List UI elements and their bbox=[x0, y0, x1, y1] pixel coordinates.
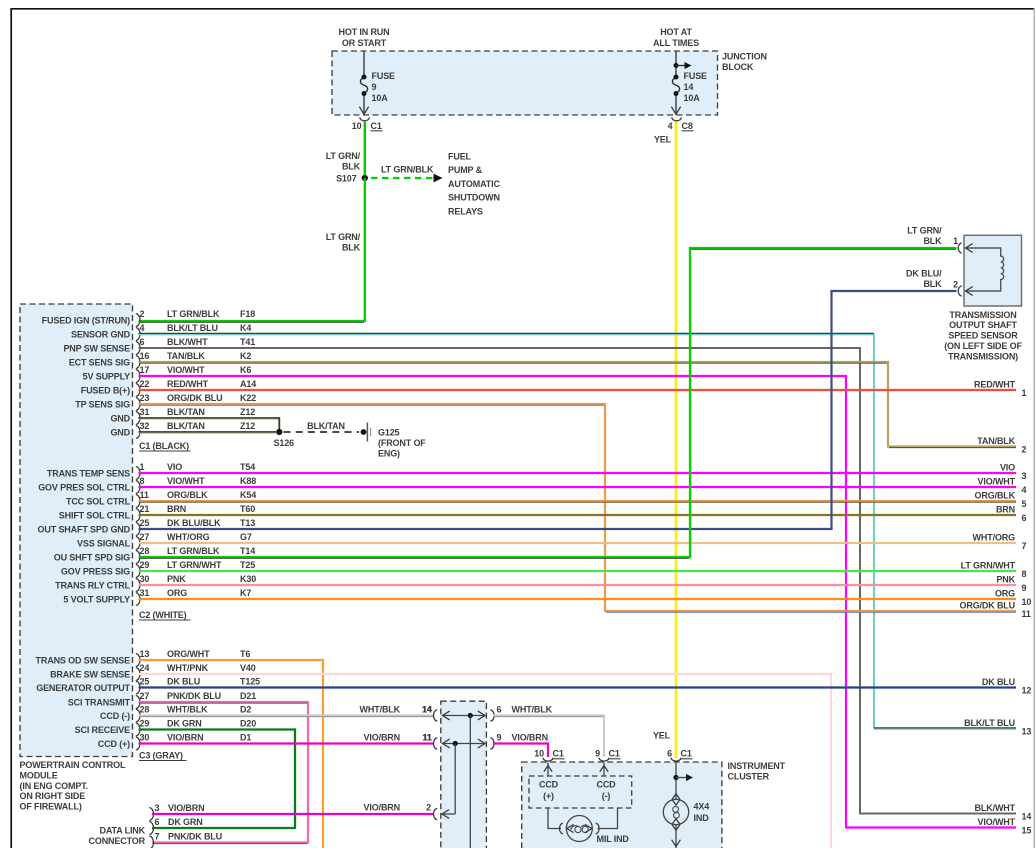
svg-text:C1: C1 bbox=[553, 749, 564, 759]
svg-text:DATA LINK: DATA LINK bbox=[100, 825, 146, 835]
PCM C1 pin 32 GND wire BLK/TAN Z12 to splice S126 bbox=[110, 421, 276, 438]
svg-text:T13: T13 bbox=[240, 518, 255, 528]
svg-text:YEL: YEL bbox=[653, 731, 671, 741]
PCM module label bbox=[20, 760, 126, 812]
PCM C2 pin 1 TRANS TEMP SENS wire VIO T54 to right edge 3 bbox=[47, 462, 1016, 479]
wire CCD (-) lead bbox=[600, 763, 608, 777]
svg-text:SHIFT SOL CTRL: SHIFT SOL CTRL bbox=[59, 511, 131, 521]
label LT GRN/ BLK upper bbox=[326, 151, 361, 172]
svg-text:C1: C1 bbox=[371, 121, 382, 131]
svg-text:23: 23 bbox=[140, 393, 150, 403]
PCM C2 pin 21 SHIFT SOL CTRL wire BRN T60 to right edge 6 bbox=[59, 504, 1016, 521]
svg-text:6: 6 bbox=[140, 337, 145, 347]
PCM C3 pin 30 CCD (+) wire VIO/BRN D1 to in-line connector pin 11 bbox=[98, 733, 434, 750]
svg-text:2: 2 bbox=[1022, 445, 1027, 455]
fuse 14 10A bbox=[671, 51, 707, 114]
PCM C1 pin 16 ECT SENS SIG wire TAN/BLK K2 to right edge 2 bbox=[69, 351, 1016, 448]
svg-text:GOV PRES SOL CTRL: GOV PRES SOL CTRL bbox=[38, 483, 130, 493]
svg-text:RED/WHT: RED/WHT bbox=[167, 379, 209, 389]
splice S126 bbox=[274, 429, 295, 448]
svg-text:12: 12 bbox=[1022, 686, 1032, 696]
svg-text:T14: T14 bbox=[240, 546, 255, 556]
svg-text:T25: T25 bbox=[240, 560, 255, 570]
svg-text:PNK/DK BLU: PNK/DK BLU bbox=[168, 832, 222, 842]
svg-text:CCD (+): CCD (+) bbox=[98, 739, 130, 749]
sensor pin 2 label DK BLU/ BLK bbox=[906, 269, 942, 290]
svg-text:9: 9 bbox=[1022, 583, 1027, 593]
wire VIO/BRN DLC pin 3 to in-line connector pin 2 bbox=[152, 803, 434, 814]
label LT GRN/ BLK lower bbox=[326, 232, 361, 253]
svg-text:4X4: 4X4 bbox=[694, 802, 710, 812]
wire LT GRN/BLK fuse 9 to splice S107 bbox=[364, 122, 366, 179]
svg-text:BLK: BLK bbox=[923, 236, 942, 246]
svg-text:GENERATOR OUTPUT: GENERATOR OUTPUT bbox=[36, 683, 130, 693]
svg-text:K22: K22 bbox=[240, 393, 256, 403]
svg-text:K54: K54 bbox=[240, 490, 256, 500]
svg-text:RELAYS: RELAYS bbox=[448, 206, 483, 216]
MIL IND lamp bbox=[560, 816, 600, 842]
svg-text:C1: C1 bbox=[609, 749, 620, 759]
svg-text:9: 9 bbox=[497, 733, 502, 743]
PCM C1 pin 23 TP SENS SIG wire ORG/DK BLU K22 to right edge 11 bbox=[75, 393, 1016, 612]
svg-text:DK BLU/: DK BLU/ bbox=[906, 269, 942, 279]
svg-text:25: 25 bbox=[140, 518, 150, 528]
svg-text:10: 10 bbox=[534, 749, 544, 759]
svg-text:A14: A14 bbox=[240, 379, 256, 389]
svg-text:SCI RECEIVE: SCI RECEIVE bbox=[75, 725, 131, 735]
svg-text:BLK/TAN: BLK/TAN bbox=[167, 407, 205, 417]
svg-text:G7: G7 bbox=[240, 532, 252, 542]
svg-text:D2: D2 bbox=[240, 705, 251, 715]
svg-text:6: 6 bbox=[497, 705, 502, 715]
PCM C3 pin 25 GENERATOR OUTPUT wire DK BLU T125 to right edge 12 bbox=[36, 677, 1016, 694]
svg-text:INSTRUMENT: INSTRUMENT bbox=[728, 761, 786, 771]
svg-text:8: 8 bbox=[1022, 569, 1027, 579]
svg-text:14: 14 bbox=[422, 705, 432, 715]
label ORG/DK BLU right edge 11 bbox=[960, 601, 1031, 619]
label BLK/WHT right edge 14 bbox=[975, 803, 1032, 821]
instrument cluster box bbox=[522, 762, 722, 848]
in-line connector box bbox=[441, 701, 487, 848]
PCM C1 pin 2 FUSED IGN (ST/RUN) wire LT GRN/BLK F18 bbox=[42, 309, 256, 326]
svg-text:LT GRN/BLK: LT GRN/BLK bbox=[167, 309, 220, 319]
svg-text:DK BLU: DK BLU bbox=[982, 677, 1015, 687]
svg-text:LT GRN/: LT GRN/ bbox=[326, 232, 361, 242]
svg-text:BLK/LT BLU: BLK/LT BLU bbox=[964, 718, 1015, 728]
svg-text:D1: D1 bbox=[240, 733, 251, 743]
svg-text:VIO/BRN: VIO/BRN bbox=[364, 733, 400, 743]
in-line connector pins 14/6 WHT/BLK pass-through bbox=[422, 705, 552, 721]
label HOT IN RUN OR START bbox=[339, 27, 390, 48]
data link connector label bbox=[89, 825, 146, 846]
arrow to fuel pump relays bbox=[434, 174, 443, 183]
PCM C2 pin 30 TRANS RLY CTRL wire PNK K30 to right edge 9 bbox=[55, 574, 1016, 591]
transmission output shaft speed sensor box bbox=[964, 235, 1022, 306]
svg-text:AUTOMATIC: AUTOMATIC bbox=[448, 179, 500, 189]
svg-text:(FRONT OF: (FRONT OF bbox=[378, 438, 426, 448]
svg-text:6: 6 bbox=[1022, 513, 1027, 523]
label VIO/BRN 11 left bbox=[364, 733, 432, 743]
svg-text:FUSE: FUSE bbox=[684, 71, 708, 81]
svg-text:WHT/BLK: WHT/BLK bbox=[512, 705, 553, 715]
label WHT/BLK 14 left bbox=[360, 705, 432, 715]
svg-text:TRANS RLY CTRL: TRANS RLY CTRL bbox=[55, 581, 131, 591]
svg-text:CCD (-): CCD (-) bbox=[100, 711, 130, 721]
connector C8 junction block bbox=[668, 117, 694, 131]
svg-text:OF FIREWALL): OF FIREWALL) bbox=[20, 802, 82, 812]
svg-text:11: 11 bbox=[140, 490, 149, 500]
svg-text:SENSOR GND: SENSOR GND bbox=[71, 330, 131, 340]
PCM C2 pin 29 GOV PRESS SIG wire LT GRN/WHT T25 to right edge 8 bbox=[61, 560, 1016, 577]
wire BLK/TAN S126 to G125 (dashed) bbox=[284, 421, 360, 432]
svg-text:WHT/BLK: WHT/BLK bbox=[360, 705, 401, 715]
svg-text:FUSED IGN (ST/RUN): FUSED IGN (ST/RUN) bbox=[42, 316, 130, 326]
svg-text:TRANSMISSION: TRANSMISSION bbox=[949, 310, 1016, 320]
svg-text:8: 8 bbox=[140, 476, 145, 486]
svg-text:30: 30 bbox=[140, 574, 150, 584]
svg-text:C2 (WHITE): C2 (WHITE) bbox=[139, 610, 187, 620]
svg-text:K7: K7 bbox=[240, 588, 251, 598]
splice S107 bbox=[336, 174, 368, 184]
sensor coil winding bbox=[966, 248, 1004, 291]
PCM C1 pin 6 PNP SW SENSE wire BLK/WHT T41 to right edge 14 bbox=[63, 337, 1016, 813]
svg-text:S107: S107 bbox=[336, 174, 357, 184]
svg-text:TRANS OD SW SENSE: TRANS OD SW SENSE bbox=[36, 656, 131, 666]
label VIO right edge 3 bbox=[1000, 463, 1027, 481]
svg-text:(ON LEFT SIDE OF: (ON LEFT SIDE OF bbox=[944, 341, 1022, 351]
label BRN right edge 6 bbox=[996, 505, 1027, 523]
svg-text:1: 1 bbox=[1022, 388, 1027, 398]
svg-text:CCD: CCD bbox=[596, 780, 616, 790]
svg-text:6: 6 bbox=[155, 817, 160, 827]
svg-text:1: 1 bbox=[140, 462, 145, 472]
svg-text:VIO: VIO bbox=[1000, 463, 1015, 473]
svg-text:ORG/WHT: ORG/WHT bbox=[167, 649, 210, 659]
svg-text:1: 1 bbox=[953, 236, 958, 246]
svg-text:16: 16 bbox=[140, 351, 150, 361]
4X4 IND lamp bbox=[663, 799, 688, 824]
svg-text:K6: K6 bbox=[240, 365, 251, 375]
svg-text:MIL IND: MIL IND bbox=[597, 834, 630, 844]
CCD bus box bbox=[529, 776, 632, 808]
svg-text:ORG/DK BLU: ORG/DK BLU bbox=[167, 393, 223, 403]
svg-text:ORG/BLK: ORG/BLK bbox=[167, 490, 208, 500]
label YEL lower bbox=[653, 731, 671, 741]
svg-text:PNK/DK BLU: PNK/DK BLU bbox=[167, 691, 221, 701]
svg-text:14: 14 bbox=[1022, 812, 1032, 822]
svg-text:15: 15 bbox=[1022, 826, 1032, 836]
svg-text:31: 31 bbox=[140, 588, 150, 598]
wire LT GRN/BLK S107 to PCM pin 2 bbox=[139, 178, 365, 322]
svg-text:C1: C1 bbox=[681, 749, 692, 759]
label BLK/LT BLU right edge 13 bbox=[964, 718, 1031, 736]
svg-text:25: 25 bbox=[140, 677, 150, 687]
svg-text:TRANS TEMP SENS: TRANS TEMP SENS bbox=[47, 469, 130, 479]
svg-text:LT GRN/BLK: LT GRN/BLK bbox=[167, 546, 220, 556]
PCM C2 pin 28 OU SHFT SPD SIG wire LT GRN/BLK T14 to speed sensor pin 1 bbox=[54, 248, 957, 563]
PCM C3 pin 28 CCD (-) wire WHT/BLK D2 to in-line connector pin 14 bbox=[100, 705, 433, 722]
svg-text:BLK: BLK bbox=[923, 279, 942, 289]
svg-text:7: 7 bbox=[155, 832, 160, 842]
svg-text:GND: GND bbox=[110, 428, 130, 438]
svg-text:K88: K88 bbox=[240, 476, 256, 486]
DLC pin 6 connector bbox=[149, 817, 202, 834]
svg-text:5V SUPPLY: 5V SUPPLY bbox=[83, 372, 130, 382]
svg-text:RED/WHT: RED/WHT bbox=[974, 380, 1016, 390]
DLC pin 7 connector bbox=[149, 832, 222, 848]
svg-text:C8: C8 bbox=[682, 121, 693, 131]
svg-text:BLK: BLK bbox=[342, 243, 361, 253]
fuse 9 10A bbox=[359, 51, 395, 114]
wire 4X4 IND circuit bbox=[672, 763, 693, 848]
PCM C2 pin 27 VSS SIGNAL wire WHT/ORG G7 to right edge 7 bbox=[77, 532, 1016, 549]
PCM C2 pin 31 5 VOLT SUPPLY wire ORG K7 to right edge 10 bbox=[63, 588, 1016, 605]
label LT GRN/WHT right edge 8 bbox=[961, 561, 1027, 579]
svg-text:WHT/PNK: WHT/PNK bbox=[167, 663, 209, 673]
svg-text:VIO/BRN: VIO/BRN bbox=[168, 803, 204, 813]
wire LT GRN/BLK S107 branch to relays (dashed) bbox=[371, 177, 433, 179]
svg-text:32: 32 bbox=[140, 421, 150, 431]
PCM C2 pin 8 GOV PRES SOL CTRL wire VIO/WHT K88 to right edge 4 bbox=[38, 476, 1016, 493]
junction block label bbox=[722, 52, 767, 73]
label ORG right edge 10 bbox=[995, 589, 1031, 607]
svg-text:21: 21 bbox=[140, 504, 150, 514]
svg-text:3: 3 bbox=[155, 803, 160, 813]
svg-text:28: 28 bbox=[140, 705, 150, 715]
svg-text:9: 9 bbox=[595, 749, 600, 759]
svg-text:13: 13 bbox=[140, 649, 150, 659]
PCM powertrain control module box bbox=[20, 304, 133, 757]
cluster connector 9 C1 bbox=[595, 749, 620, 762]
svg-text:ENG): ENG) bbox=[378, 448, 400, 458]
svg-text:4: 4 bbox=[668, 121, 673, 131]
svg-text:OU SHFT SPD SIG: OU SHFT SPD SIG bbox=[54, 553, 130, 563]
svg-text:LT GRN/: LT GRN/ bbox=[326, 151, 361, 161]
svg-text:4: 4 bbox=[140, 323, 145, 333]
cluster connector 6 C1 bbox=[667, 749, 692, 762]
junction block bbox=[332, 51, 718, 115]
cluster connector 10 C1 bbox=[534, 749, 564, 762]
PCM C2 pin 11 TCC SOL CTRL wire ORG/BLK K54 to right edge 5 bbox=[66, 490, 1016, 507]
svg-text:V40: V40 bbox=[240, 663, 256, 673]
svg-text:VIO/WHT: VIO/WHT bbox=[167, 476, 205, 486]
label DK BLU right edge 12 bbox=[982, 677, 1031, 695]
svg-text:DK GRN: DK GRN bbox=[167, 719, 202, 729]
sensor label bbox=[944, 310, 1022, 362]
svg-text:POWERTRAIN CONTROL: POWERTRAIN CONTROL bbox=[20, 760, 126, 770]
svg-text:G125: G125 bbox=[378, 427, 400, 437]
label VIO/WHT right edge 4 bbox=[978, 477, 1027, 495]
svg-text:7: 7 bbox=[1022, 541, 1027, 551]
svg-text:9: 9 bbox=[372, 82, 377, 92]
PCM C3 pin 29 SCI RECEIVE wire DK GRN D20 to DLC pin 6 bbox=[75, 719, 295, 828]
svg-text:2: 2 bbox=[953, 279, 958, 289]
svg-text:T41: T41 bbox=[240, 337, 255, 347]
svg-text:22: 22 bbox=[140, 379, 150, 389]
svg-text:5: 5 bbox=[1022, 499, 1027, 509]
svg-text:F18: F18 bbox=[240, 309, 255, 319]
svg-text:VIO/BRN: VIO/BRN bbox=[364, 803, 400, 813]
svg-text:VIO/WHT: VIO/WHT bbox=[978, 817, 1016, 827]
svg-text:TP SENS SIG: TP SENS SIG bbox=[75, 400, 130, 410]
DLC pin 3 connector bbox=[149, 803, 204, 820]
svg-text:2: 2 bbox=[426, 803, 431, 813]
svg-text:2: 2 bbox=[140, 309, 145, 319]
svg-text:BRN: BRN bbox=[996, 505, 1015, 515]
wire MIL IND lamp leads bbox=[548, 808, 618, 829]
svg-text:ORG: ORG bbox=[995, 589, 1015, 599]
svg-text:31: 31 bbox=[140, 407, 150, 417]
svg-text:DK GRN: DK GRN bbox=[168, 817, 203, 827]
svg-text:JUNCTION: JUNCTION bbox=[722, 52, 767, 62]
svg-text:D20: D20 bbox=[240, 719, 256, 729]
svg-text:4: 4 bbox=[1022, 485, 1027, 495]
svg-text:C3 (GRAY): C3 (GRAY) bbox=[139, 751, 183, 761]
svg-text:DK BLU/BLK: DK BLU/BLK bbox=[167, 518, 221, 528]
connector C2 (WHITE) label bbox=[139, 610, 191, 620]
svg-text:OR START: OR START bbox=[342, 38, 387, 48]
svg-text:TRANSMISSION): TRANSMISSION) bbox=[948, 351, 1018, 361]
label PNK right edge 9 bbox=[996, 575, 1026, 593]
svg-text:27: 27 bbox=[140, 691, 150, 701]
svg-text:PUMP &: PUMP & bbox=[448, 165, 483, 175]
instrument cluster label bbox=[728, 761, 786, 782]
svg-text:VIO/BRN: VIO/BRN bbox=[167, 733, 203, 743]
svg-text:30: 30 bbox=[140, 733, 150, 743]
PCM C3 pin 24 BRAKE SW SENSE wire WHT/PNK V40 bbox=[50, 663, 831, 848]
svg-text:5 VOLT SUPPLY: 5 VOLT SUPPLY bbox=[63, 595, 130, 605]
svg-text:SHUTDOWN: SHUTDOWN bbox=[448, 193, 500, 203]
connector C1 junction block bbox=[352, 117, 383, 131]
sensor pin 1 label LT GRN/ BLK bbox=[907, 226, 942, 247]
svg-text:Z12: Z12 bbox=[240, 407, 255, 417]
svg-text:(IN ENG COMPT.: (IN ENG COMPT. bbox=[20, 781, 88, 791]
svg-text:OUTPUT SHAFT: OUTPUT SHAFT bbox=[949, 320, 1017, 330]
PCM C1 pin 4 SENSOR GND wire BLK/LT BLU K4 to right edge 13 bbox=[71, 323, 1016, 729]
label LT GRN/BLK branch bbox=[381, 165, 434, 175]
wire WHT/BLK in-line connector to cluster 9 C1 bbox=[493, 716, 604, 758]
svg-text:D21: D21 bbox=[240, 691, 256, 701]
svg-text:VIO/WHT: VIO/WHT bbox=[167, 365, 205, 375]
svg-text:BLK/WHT: BLK/WHT bbox=[167, 337, 208, 347]
svg-text:MODULE: MODULE bbox=[20, 770, 58, 780]
svg-text:IND: IND bbox=[694, 813, 710, 823]
svg-text:17: 17 bbox=[140, 365, 150, 375]
svg-text:FUSE: FUSE bbox=[372, 71, 396, 81]
svg-text:(-): (-) bbox=[602, 791, 611, 801]
svg-text:10: 10 bbox=[1022, 597, 1032, 607]
svg-text:Z12: Z12 bbox=[240, 421, 255, 431]
svg-text:BRN: BRN bbox=[167, 504, 186, 514]
label ORG/BLK right edge 5 bbox=[975, 491, 1027, 509]
svg-text:24: 24 bbox=[140, 663, 150, 673]
svg-text:29: 29 bbox=[140, 560, 150, 570]
svg-text:11: 11 bbox=[1022, 609, 1031, 619]
PCM C3 pin 13 TRANS OD SW SENSE wire ORG/WHT T6 bbox=[36, 649, 323, 848]
label FUEL PUMP AUTOMATIC SHUTDOWN RELAYS bbox=[448, 151, 500, 216]
svg-text:FUEL: FUEL bbox=[448, 151, 472, 161]
ground G125 (FRONT OF ENG) bbox=[361, 423, 427, 459]
svg-text:11: 11 bbox=[422, 733, 431, 743]
connector C1 (BLACK) label bbox=[139, 441, 191, 451]
svg-text:TCC SOL CTRL: TCC SOL CTRL bbox=[66, 497, 131, 507]
svg-text:WHT/BLK: WHT/BLK bbox=[167, 705, 208, 715]
svg-text:ECT SENS SIG: ECT SENS SIG bbox=[69, 358, 130, 368]
svg-text:BLOCK: BLOCK bbox=[722, 62, 754, 72]
svg-text:K2: K2 bbox=[240, 351, 251, 361]
wire VIO/BRN in-line connector to cluster 10 C1 bbox=[493, 744, 548, 758]
svg-text:28: 28 bbox=[140, 546, 150, 556]
svg-text:ALL TIMES: ALL TIMES bbox=[653, 38, 699, 48]
svg-text:BRAKE SW SENSE: BRAKE SW SENSE bbox=[50, 670, 130, 680]
svg-text:PNK: PNK bbox=[996, 575, 1015, 585]
svg-text:VIO/BRN: VIO/BRN bbox=[512, 733, 548, 743]
wire YEL fuse 14 to instrument cluster 6 C1 bbox=[675, 122, 678, 759]
svg-text:BLK/TAN: BLK/TAN bbox=[167, 421, 205, 431]
svg-text:VIO: VIO bbox=[167, 462, 182, 472]
svg-text:WHT/ORG: WHT/ORG bbox=[167, 532, 210, 542]
label WHT/ORG right edge 7 bbox=[973, 533, 1027, 551]
svg-text:BLK: BLK bbox=[342, 162, 361, 172]
svg-text:13: 13 bbox=[1022, 727, 1032, 737]
sensor pin 1 connector bbox=[953, 236, 973, 253]
svg-text:FUSED B(+): FUSED B(+) bbox=[81, 386, 130, 396]
svg-text:GND: GND bbox=[110, 414, 130, 424]
svg-text:(+): (+) bbox=[543, 791, 554, 801]
in-line connector internal wire to pin 2 bbox=[433, 744, 455, 820]
label YEL top bbox=[654, 135, 672, 145]
PCM C1 pin 22 FUSED B(+) wire RED/WHT A14 to right edge 1 bbox=[81, 379, 1016, 396]
svg-text:27: 27 bbox=[140, 532, 150, 542]
svg-text:29: 29 bbox=[140, 719, 150, 729]
svg-text:ON RIGHT SIDE: ON RIGHT SIDE bbox=[20, 791, 86, 801]
PCM C2 pin 25 OUT SHAFT SPD GND wire DK BLU/BLK T13 to speed sensor pin 2 bbox=[38, 291, 957, 535]
svg-text:ORG: ORG bbox=[167, 588, 187, 598]
svg-text:LT GRN/WHT: LT GRN/WHT bbox=[167, 560, 222, 570]
svg-text:HOT AT: HOT AT bbox=[660, 27, 692, 37]
wire CCD (+) lead bbox=[544, 763, 552, 777]
svg-text:K4: K4 bbox=[240, 323, 251, 333]
svg-text:S126: S126 bbox=[274, 438, 295, 448]
svg-text:3: 3 bbox=[1022, 471, 1027, 481]
svg-text:14: 14 bbox=[684, 82, 694, 92]
label HOT AT ALL TIMES bbox=[653, 27, 699, 48]
svg-text:LT GRN/: LT GRN/ bbox=[907, 226, 942, 236]
PCM C1 pin 31 GND wire BLK/TAN Z12 to splice S126 bbox=[110, 407, 279, 429]
connector C3 (GRAY) label bbox=[139, 751, 187, 761]
svg-text:TAN/BLK: TAN/BLK bbox=[977, 436, 1015, 446]
svg-text:10: 10 bbox=[352, 121, 362, 131]
PCM C1 pin 17 5V SUPPLY wire VIO/WHT K6 to right edge 15 bbox=[83, 365, 1016, 827]
svg-text:SCI TRANSMIT: SCI TRANSMIT bbox=[68, 698, 131, 708]
in-line connector pins 11/9 VIO/BRN pass-through bbox=[423, 733, 548, 749]
PCM C3 pin 27 SCI TRANSMIT wire PNK/DK BLU D21 to DLC pin 7 bbox=[68, 691, 308, 844]
svg-text:LT GRN/BLK: LT GRN/BLK bbox=[381, 165, 434, 175]
label CCD (-) bbox=[596, 780, 616, 801]
label 4X4 IND bbox=[694, 802, 710, 824]
svg-text:CONNECTOR: CONNECTOR bbox=[89, 836, 146, 846]
label MIL IND bbox=[597, 834, 630, 844]
svg-text:PNK: PNK bbox=[167, 574, 186, 584]
svg-text:K30: K30 bbox=[240, 574, 256, 584]
svg-text:WHT/ORG: WHT/ORG bbox=[973, 533, 1016, 543]
svg-text:PNP SW SENSE: PNP SW SENSE bbox=[63, 344, 130, 354]
svg-text:DK BLU: DK BLU bbox=[167, 677, 200, 687]
svg-text:TAN/BLK: TAN/BLK bbox=[167, 351, 205, 361]
svg-text:VSS SIGNAL: VSS SIGNAL bbox=[77, 539, 131, 549]
svg-text:T125: T125 bbox=[240, 677, 260, 687]
svg-text:T54: T54 bbox=[240, 462, 255, 472]
